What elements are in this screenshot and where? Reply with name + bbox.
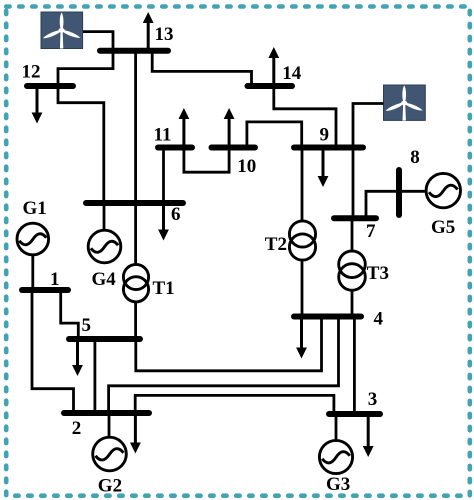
svg-text:3: 3	[368, 389, 378, 410]
svg-text:1: 1	[50, 269, 60, 290]
generator G5	[426, 173, 460, 207]
wire T1 to bus 5	[134, 301, 137, 339]
svg-text:T2: T2	[265, 234, 287, 255]
transformer T1	[123, 264, 148, 302]
bus 1	[22, 287, 68, 293]
svg-text:9: 9	[320, 125, 330, 146]
transformer T3	[339, 251, 366, 290]
wire bus 7 to T3	[351, 218, 354, 251]
wire G1 to bus 1	[31, 255, 34, 290]
load arrow bus 3 (down)	[363, 414, 374, 457]
svg-text:T3: T3	[367, 263, 389, 284]
svg-text:11: 11	[154, 125, 172, 146]
svg-text:4: 4	[374, 309, 384, 330]
wire line 6-13	[134, 50, 137, 203]
generator G2	[93, 437, 127, 471]
bus 3	[329, 411, 380, 417]
load arrow bus 4 (down)	[296, 317, 307, 359]
wire WT1 to bus 13	[83, 32, 113, 50]
wire line 6-12	[58, 86, 104, 203]
bus 13	[100, 48, 168, 54]
wire bus 6 to T1	[134, 203, 137, 265]
svg-text:G1: G1	[23, 198, 47, 219]
generator G4	[88, 230, 121, 263]
bus 11	[158, 145, 192, 151]
wire G2 to bus 2	[108, 413, 111, 438]
bus 14	[248, 83, 293, 89]
wind turbine WT2	[384, 85, 426, 121]
wire line 10-11	[184, 147, 229, 172]
load arrow bus 12 (down)	[32, 86, 43, 124]
svg-text:5: 5	[82, 315, 92, 336]
svg-text:G5: G5	[431, 217, 455, 238]
bus 10	[212, 145, 256, 151]
load arrow bus 13 (up)	[143, 12, 154, 50]
load arrow bus 10 (up)	[224, 108, 235, 147]
svg-text:T1: T1	[153, 278, 175, 299]
load arrow bus 11 (up)	[179, 108, 190, 147]
wire line 12-13	[58, 50, 113, 86]
bus 6	[86, 200, 183, 206]
wire line 13-14	[152, 50, 251, 86]
wire line 6-11	[162, 147, 165, 203]
load arrow bus 5 (down)	[72, 339, 83, 376]
wire T3 to bus 4	[351, 291, 354, 317]
wire line 4-5	[136, 317, 322, 371]
wire G3 to bus 3	[335, 414, 338, 441]
svg-text:G2: G2	[98, 476, 122, 497]
wire line 2-4	[109, 317, 339, 414]
wire line 7-9	[352, 147, 355, 218]
wire line 1-5	[61, 290, 79, 339]
wire T2 to bus 4	[301, 260, 304, 317]
bus 9	[294, 145, 363, 151]
load arrow bus 6 (down)	[158, 203, 169, 241]
wire line 2-5	[94, 339, 97, 413]
bus 5	[69, 336, 140, 342]
svg-text:8: 8	[410, 147, 420, 168]
svg-text:G3: G3	[326, 474, 350, 495]
wire bus 8 to G5	[399, 190, 426, 193]
bus 12	[27, 83, 73, 89]
wire line 1-2	[32, 290, 74, 413]
wire bus 9 to T2	[301, 147, 304, 221]
generator G3	[319, 440, 352, 473]
wire line 2-3	[135, 395, 334, 414]
wire line 7-8	[366, 191, 399, 218]
svg-text:2: 2	[72, 418, 82, 439]
bus 2	[64, 410, 149, 416]
svg-text:10: 10	[237, 156, 256, 177]
wire line 3-4	[353, 317, 356, 415]
bus 7	[334, 215, 376, 221]
generator G1	[17, 223, 49, 255]
wire WT2 to bus 9	[353, 104, 384, 148]
svg-text:6: 6	[171, 204, 181, 225]
transformer T2	[289, 221, 315, 260]
svg-text:12: 12	[22, 62, 41, 83]
svg-text:14: 14	[282, 63, 302, 84]
wire G4 to bus 6	[103, 203, 106, 231]
bus 4	[294, 314, 361, 320]
wind turbine WT1	[41, 12, 83, 49]
bus 8 (vertical)	[396, 170, 402, 215]
svg-text:G4: G4	[92, 269, 117, 290]
load arrow bus 9 (down)	[318, 147, 329, 187]
load arrow bus 2 (down)	[130, 413, 141, 454]
wire line 9-14	[274, 86, 336, 147]
wire line 9-10	[247, 122, 302, 147]
load arrow bus 14 (up)	[268, 47, 279, 86]
svg-text:13: 13	[155, 24, 174, 45]
svg-text:7: 7	[366, 221, 376, 242]
